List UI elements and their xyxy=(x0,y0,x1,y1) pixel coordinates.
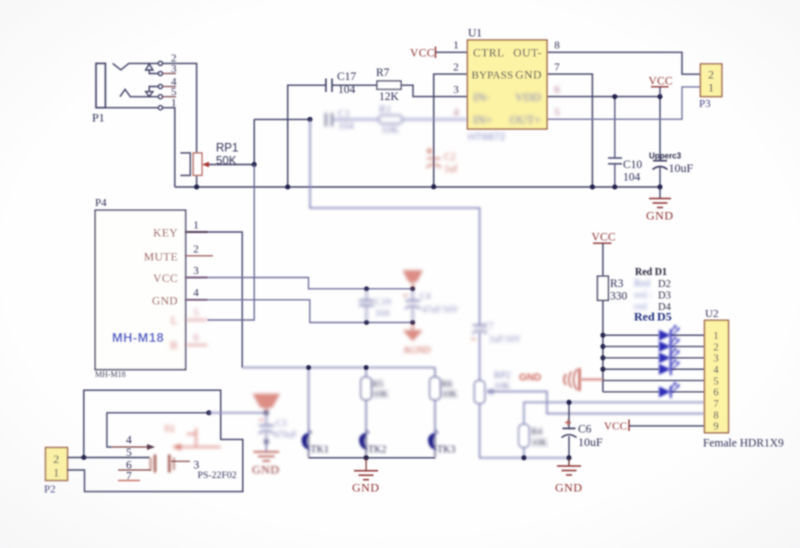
svg-text:D4: D4 xyxy=(658,302,672,313)
wire VCC to U1 pin1 xyxy=(436,51,468,53)
svg-text:104: 104 xyxy=(375,309,390,319)
wire RP2 wiper to U2 pin8 xyxy=(488,392,705,414)
resistor R7 xyxy=(377,81,401,89)
svg-text:P2: P2 xyxy=(44,484,56,496)
svg-text:P4: P4 xyxy=(95,197,107,209)
node R4 bottom / C6 bottom xyxy=(521,400,571,461)
svg-text:104: 104 xyxy=(338,84,356,96)
power VCC at U2 pin9 xyxy=(604,420,705,433)
node touch rail R5 xyxy=(364,365,369,370)
wires from P4 xyxy=(186,165,413,368)
wire U2 pin5 xyxy=(603,380,705,382)
switch S1 numbers xyxy=(126,435,237,483)
svg-text:R5: R5 xyxy=(372,380,383,390)
svg-text:1: 1 xyxy=(53,466,59,480)
LED D2 xyxy=(659,336,680,352)
capacitor C19 xyxy=(359,289,391,323)
svg-text:D2: D2 xyxy=(658,279,671,290)
svg-text:4: 4 xyxy=(193,287,199,299)
RP2 wiper arrow xyxy=(486,389,494,395)
capacitor C3U electrolytic 10uF xyxy=(653,97,668,187)
resistor R4 xyxy=(519,424,529,447)
node wiper junction vertical to C1 row xyxy=(253,119,255,164)
svg-text:GND: GND xyxy=(152,296,178,308)
connector P3 xyxy=(699,64,722,110)
touch key TK1 xyxy=(302,431,328,458)
svg-text:L: L xyxy=(171,313,178,327)
junction dots mid xyxy=(306,286,415,370)
switch S1 poles xyxy=(151,455,174,473)
wire RP2 bottom to gnd rail xyxy=(480,404,569,458)
svg-text:VCC: VCC xyxy=(410,48,435,60)
svg-text:AGND: AGND xyxy=(403,346,431,356)
svg-text:4: 4 xyxy=(126,435,132,447)
cathode wires to U2 xyxy=(671,334,705,336)
svg-text:104: 104 xyxy=(623,172,641,184)
svg-text:P1: P1 xyxy=(92,111,105,125)
svg-text:2: 2 xyxy=(708,68,714,82)
switch S1 pin6 line xyxy=(118,461,190,480)
svg-text:R4: R4 xyxy=(531,428,542,438)
node C4 bottom xyxy=(410,320,415,325)
svg-text:Upperc3: Upperc3 xyxy=(649,152,682,161)
pin3 line xyxy=(171,460,190,462)
LED labels xyxy=(634,267,672,324)
svg-text:HT6872: HT6872 xyxy=(468,131,506,143)
pin stub L xyxy=(186,319,208,321)
wire GND row xyxy=(186,300,413,323)
svg-text:330: 330 xyxy=(610,291,628,303)
switch S1 inner loop pin4 xyxy=(107,413,209,447)
svg-text:TK2: TK2 xyxy=(368,445,386,456)
svg-text:C1: C1 xyxy=(338,109,350,120)
svg-text:4: 4 xyxy=(453,107,459,119)
svg-text:U1: U1 xyxy=(468,28,482,40)
wire C6 drop from pin7 net xyxy=(568,402,570,458)
connector U2 xyxy=(703,308,784,450)
svg-text:VCC: VCC xyxy=(649,76,673,88)
capacitor C6 electrolytic xyxy=(562,420,604,450)
pin stub R xyxy=(186,344,208,346)
P1 ring prong xyxy=(120,89,159,96)
svg-text:12K: 12K xyxy=(379,91,400,103)
RP1 pot body xyxy=(92,111,238,176)
capacitor C3 electrolytic xyxy=(259,411,297,444)
svg-text:10K: 10K xyxy=(494,382,511,392)
node C10 rail xyxy=(612,185,617,190)
wire C1 row to junction xyxy=(254,118,310,120)
svg-text:OUT-: OUT- xyxy=(513,48,542,60)
svg-text:1uf: 1uf xyxy=(444,164,458,175)
pin4 arrow xyxy=(112,444,155,450)
potentiometer RP2 body xyxy=(474,381,484,404)
ground GND right xyxy=(555,458,583,495)
ground AGND red symbol below C4 xyxy=(403,323,431,357)
svg-text:3: 3 xyxy=(193,265,199,277)
node C4 top xyxy=(410,286,415,291)
wire P1 pin2 to RP1 top xyxy=(163,63,197,152)
ground GND touch keys xyxy=(352,458,380,495)
wire P2 pin2 to switch pole xyxy=(68,457,150,459)
node wiper/C1 xyxy=(252,162,257,167)
capacitor C4 electrolytic xyxy=(403,289,459,323)
svg-text:S1: S1 xyxy=(164,424,175,434)
svg-text:GND: GND xyxy=(252,463,280,477)
svg-text:GND: GND xyxy=(555,481,583,495)
svg-text:10K: 10K xyxy=(531,439,548,449)
svg-text:6: 6 xyxy=(713,388,718,399)
wire U1 pin2 bypass down to rail xyxy=(434,74,468,187)
power VCC red symbol above C3 xyxy=(254,395,279,413)
node C19 bottom xyxy=(364,320,369,325)
svg-text:1: 1 xyxy=(453,40,459,52)
connector P2 xyxy=(44,448,68,496)
svg-text:5: 5 xyxy=(713,376,718,387)
svg-text:U2: U2 xyxy=(705,308,718,320)
svg-text:4: 4 xyxy=(713,365,719,376)
svg-text:470uF: 470uF xyxy=(274,430,297,440)
svg-text:50K: 50K xyxy=(216,156,237,168)
RP1 pot bracket xyxy=(180,153,190,176)
svg-text:MH-M18: MH-M18 xyxy=(95,370,126,379)
svg-text:VDD: VDD xyxy=(515,90,541,104)
svg-text:Red D1: Red D1 xyxy=(635,267,667,278)
wire S1 to C3 xyxy=(209,412,266,414)
svg-text:6: 6 xyxy=(193,332,199,344)
node VCC pin6 xyxy=(658,94,663,99)
svg-text:C7: C7 xyxy=(483,321,494,331)
svg-text:GND: GND xyxy=(646,209,674,223)
svg-text:C6: C6 xyxy=(578,424,592,436)
svg-text:red :: red : xyxy=(634,290,652,301)
wire TK1 drop xyxy=(308,368,310,437)
P1 sleeve line to pin1 xyxy=(96,107,158,109)
svg-text:C19: C19 xyxy=(375,298,391,308)
svg-text:RP2: RP2 xyxy=(494,371,511,381)
LED D1 xyxy=(659,325,680,341)
svg-text:10K: 10K xyxy=(441,390,458,400)
node TK2 ground xyxy=(364,455,369,460)
svg-text:MH-M18: MH-M18 xyxy=(112,330,164,345)
node pin7 rail xyxy=(590,185,595,190)
switch S1 selected pin2 marks xyxy=(164,424,221,451)
svg-text:D3: D3 xyxy=(658,291,671,302)
svg-text:104: 104 xyxy=(338,121,355,132)
svg-text:IN+: IN+ xyxy=(473,113,493,127)
node C17 rail xyxy=(285,185,290,190)
svg-text:2: 2 xyxy=(453,62,459,74)
svg-text:C17: C17 xyxy=(337,71,356,83)
svg-text:GND: GND xyxy=(519,373,541,384)
wire below C7 to RP2 xyxy=(479,332,481,381)
svg-text:red: red xyxy=(634,302,647,313)
svg-text:TK1: TK1 xyxy=(311,445,329,456)
svg-text:Female HDR1X9: Female HDR1X9 xyxy=(703,438,784,450)
svg-text:PS-22F02: PS-22F02 xyxy=(198,470,237,481)
svg-text:P3: P3 xyxy=(699,98,711,110)
svg-text:7: 7 xyxy=(713,399,718,410)
node touch rail TK1 xyxy=(306,365,311,370)
wire U1 pin5 to P3 pin1 xyxy=(547,87,700,119)
svg-text:9: 9 xyxy=(713,422,718,433)
svg-text:R7: R7 xyxy=(376,67,390,79)
node C19 top xyxy=(364,286,369,291)
ground speaker symbol red xyxy=(519,368,603,391)
P1 switch contact upper triangle xyxy=(146,64,159,74)
svg-text:R3: R3 xyxy=(610,278,624,290)
node pot bottom xyxy=(194,185,199,190)
svg-text:C3: C3 xyxy=(276,418,287,428)
P1 pin numbers xyxy=(171,53,177,110)
pin stubs P4 dark red xyxy=(186,232,213,300)
touch key rail xyxy=(242,368,440,437)
P1 switch contact lower triangle xyxy=(146,87,159,97)
svg-text:8: 8 xyxy=(713,410,718,421)
RP1 wiper wire xyxy=(206,164,254,166)
wire touch keys bottom rail xyxy=(309,457,435,459)
svg-text:2: 2 xyxy=(713,342,718,353)
svg-text:C10: C10 xyxy=(623,159,642,171)
pin stubs 3,4,5 xyxy=(163,74,177,97)
resistor R3 xyxy=(598,276,628,392)
svg-text:C2: C2 xyxy=(444,152,456,163)
capacitor C17 xyxy=(326,79,332,93)
svg-text:IN-: IN- xyxy=(473,90,490,104)
svg-text:VCC: VCC xyxy=(604,421,627,433)
RP1 pot bottom to rail xyxy=(196,175,198,187)
node C10 top xyxy=(612,94,617,99)
capacitor C1 + resistor R1 (soft blue) xyxy=(326,105,468,137)
svg-text:10uF: 10uF xyxy=(669,161,694,175)
svg-text:R: R xyxy=(170,338,178,352)
resistor R6 xyxy=(434,368,436,378)
LED D3 xyxy=(659,348,680,364)
touch key TK2 xyxy=(360,431,386,458)
svg-text:VCC: VCC xyxy=(592,232,616,244)
svg-text:7: 7 xyxy=(554,62,560,74)
svg-text:MUTE: MUTE xyxy=(144,252,178,264)
wire U1 pin8 to P3 pin2 xyxy=(547,52,700,74)
svg-text:6: 6 xyxy=(554,84,560,96)
P1 pin circles xyxy=(158,61,162,65)
anode wires xyxy=(603,335,705,392)
svg-text:1uF/16V: 1uF/16V xyxy=(489,334,522,344)
svg-text:5: 5 xyxy=(193,307,199,319)
wire P2 pin2 outer loop xyxy=(68,390,243,491)
node C1 row xyxy=(308,117,313,122)
LED D4 xyxy=(659,359,680,375)
ground GND amp xyxy=(646,187,674,223)
pin7 stub xyxy=(118,480,140,482)
wire blue down from C1 node xyxy=(310,119,480,325)
capacitor C17 labels xyxy=(337,67,400,103)
svg-text:10K: 10K xyxy=(381,125,400,136)
svg-text:47uF/16V: 47uF/16V xyxy=(422,305,459,315)
svg-text:2: 2 xyxy=(193,244,199,256)
P1 tip prong xyxy=(113,63,159,70)
capacitor upper c3 labels xyxy=(649,152,694,176)
resistor R5 xyxy=(365,368,367,378)
wire U2 pin7 net to R4 xyxy=(519,402,705,458)
main ground rail xyxy=(175,186,660,188)
svg-text:3: 3 xyxy=(453,84,459,96)
svg-text:R6: R6 xyxy=(441,380,452,390)
LED anode bus dots xyxy=(600,333,605,372)
svg-text:TK3: TK3 xyxy=(437,445,455,456)
svg-text:1: 1 xyxy=(708,81,714,95)
capacitor C7 electrolytic xyxy=(471,321,522,395)
wire VCC row xyxy=(186,278,413,289)
svg-text:GND: GND xyxy=(515,70,542,82)
touch key TK3 xyxy=(429,431,456,458)
svg-text:KEY: KEY xyxy=(153,228,178,240)
svg-text:3: 3 xyxy=(713,354,718,365)
wire KEY down to touch rail xyxy=(186,232,243,368)
power VCC above R3 xyxy=(592,232,616,277)
capacitor C10 labels xyxy=(623,159,642,184)
svg-text:BYPASS: BYPASS xyxy=(472,70,514,82)
svg-text:CTRL: CTRL xyxy=(473,48,505,60)
svg-text:10uF: 10uF xyxy=(578,435,603,449)
node 10uF rail xyxy=(658,185,663,190)
svg-text:7: 7 xyxy=(126,471,132,483)
wire R7 to U1 pin3 xyxy=(401,85,467,96)
svg-text:OUT+: OUT+ xyxy=(510,113,542,127)
capacitor C10 xyxy=(608,97,622,187)
svg-text:5: 5 xyxy=(554,107,560,119)
node S1 vcc branch xyxy=(206,410,211,415)
svg-text:VCC: VCC xyxy=(153,273,178,285)
svg-text:5: 5 xyxy=(126,447,132,459)
wire P1 pin1 down to gnd rail xyxy=(163,108,175,187)
power VCC red symbol above C4 xyxy=(404,271,421,289)
power VCC U1 pin1 xyxy=(410,47,436,60)
wire U1 pin6 VDD to VCC node xyxy=(547,96,660,98)
RP1 wiper arrow xyxy=(202,162,209,168)
ground GND below C3 xyxy=(252,442,280,477)
wire U1 pin7 down to rail xyxy=(547,74,592,187)
svg-text:1: 1 xyxy=(713,331,718,342)
capacitor C2 electrolytic xyxy=(427,148,459,175)
svg-text:1: 1 xyxy=(193,220,199,232)
svg-text:8: 8 xyxy=(554,40,560,52)
wire L pin to RP1 wiper net xyxy=(208,165,255,321)
svg-text:R1: R1 xyxy=(379,105,391,116)
svg-text:10K: 10K xyxy=(372,390,389,400)
power VCC at pin6 xyxy=(649,76,673,97)
svg-text:RP1: RP1 xyxy=(216,143,238,155)
wire C17 feed from rail xyxy=(288,85,326,187)
svg-text:Red: Red xyxy=(634,279,650,290)
svg-text:C4: C4 xyxy=(420,291,431,301)
svg-text:2: 2 xyxy=(53,452,59,466)
connector P1 body xyxy=(96,61,162,109)
LED D5 xyxy=(659,382,680,398)
wire C17 to R7 xyxy=(332,84,377,86)
node C2 rail xyxy=(431,184,436,189)
svg-text:GND: GND xyxy=(352,481,380,495)
